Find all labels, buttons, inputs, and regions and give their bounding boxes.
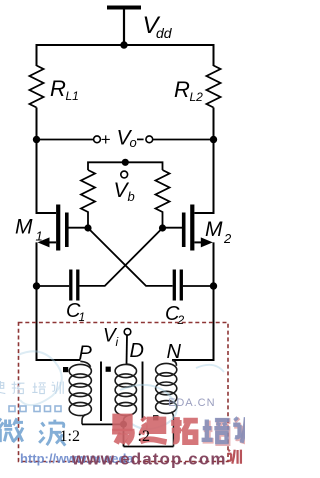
boundary red dashed box (19, 323, 229, 462)
svg-text:L1: L1 (66, 89, 79, 103)
label Vdd (143, 12, 173, 41)
svg-text:R: R (174, 77, 190, 102)
resistor right bias (156, 170, 170, 228)
svg-text:N: N (167, 341, 182, 363)
svg-text:EDA.CN: EDA.CN (168, 397, 216, 409)
svg-text:M: M (15, 216, 33, 239)
node D bottom junction (120, 421, 127, 428)
label M2 (205, 218, 232, 246)
node M1 gate (84, 224, 91, 231)
watermark blue-gray xun (234, 418, 258, 444)
watermark blue-gray pei (203, 420, 231, 443)
label Vb (114, 179, 135, 204)
resistor left bias (81, 170, 95, 228)
core line left (100, 362, 102, 422)
wire right rail upper (195, 108, 214, 214)
svg-text:www.edatop.com: www.edatop.com (71, 450, 227, 469)
resistor RL1 (30, 66, 44, 108)
node Vb terminal (121, 171, 128, 178)
wire Vo left (37, 139, 94, 141)
phasing square D (106, 367, 111, 372)
wire left rail upper (37, 108, 57, 214)
decorative flourish mid (120, 385, 177, 429)
label + Vo - (101, 127, 144, 151)
wire top rail (37, 45, 214, 66)
label C2 (165, 303, 185, 327)
svg-text::2: :2 (138, 428, 150, 445)
label M1 (15, 216, 43, 244)
node Vdd junction (120, 41, 127, 48)
winding P (69, 361, 91, 424)
wire cross-couple M2 gate to C1 (79, 228, 162, 286)
svg-text:D: D (130, 340, 144, 362)
watermark big red di (140, 416, 166, 442)
node M2 gate (159, 224, 166, 231)
resistor RL2 (207, 66, 221, 108)
phasing square N (153, 415, 158, 420)
svg-text:+: + (101, 130, 111, 149)
svg-text:2: 2 (177, 313, 185, 327)
watermark big red tuo (171, 417, 198, 442)
wire left rail lower (37, 242, 81, 360)
winding N (156, 360, 177, 446)
svg-text:2: 2 (223, 231, 232, 246)
svg-text:b: b (128, 189, 135, 204)
capacitor C1 (37, 270, 78, 301)
node C1 left junction (33, 282, 40, 289)
watermark blue bo (39, 420, 65, 446)
svg-text:R: R (50, 76, 66, 101)
svg-text:L2: L2 (190, 90, 204, 104)
node Vb junction (122, 159, 129, 166)
power symbol Vdd bar (107, 6, 141, 10)
label C1 (66, 300, 85, 324)
node C2 right junction (210, 282, 217, 289)
node Vi terminal (124, 329, 131, 336)
watermark big red yi (112, 417, 132, 444)
wire bottom bus (124, 446, 174, 448)
svg-text:1:2: 1:2 (60, 428, 80, 445)
phasing square P (63, 367, 68, 372)
core line right (142, 362, 144, 422)
svg-text:o: o (130, 135, 137, 150)
winding D (115, 364, 136, 424)
label Vi (103, 326, 119, 350)
watermark blue wei (0, 418, 23, 442)
node Vo+ terminal (94, 136, 101, 143)
svg-text:dd: dd (156, 25, 173, 41)
wire Vo right (153, 139, 214, 141)
node left Vo junction (33, 136, 40, 143)
wire Vb rail (88, 162, 163, 170)
label RL2 (174, 77, 203, 104)
node right Vo junction (210, 136, 217, 143)
decorative flourish small (196, 365, 224, 372)
wire cross-couple M1 gate to C2 (88, 228, 173, 286)
label RL1 (50, 76, 79, 103)
wire right rail lower (172, 242, 214, 360)
wire D center tap down (123, 424, 125, 446)
svg-text:M: M (205, 218, 223, 241)
wire Vi lead (126, 335, 129, 364)
watermark faint blue glyph row (0, 381, 63, 394)
capacitor C2 (174, 270, 213, 301)
svg-text:i: i (116, 335, 119, 349)
svg-text:1: 1 (36, 229, 43, 244)
decorative flourish left (18, 351, 62, 405)
watermark red fragment xun (228, 450, 241, 464)
transistor M1 (38, 205, 89, 251)
wire P bottom to D bottom (82, 423, 124, 425)
wire Vdd stub (123, 9, 125, 45)
node Vo- terminal (146, 136, 153, 143)
watermark tiny square row (9, 406, 61, 412)
transistor M2 (163, 205, 213, 251)
